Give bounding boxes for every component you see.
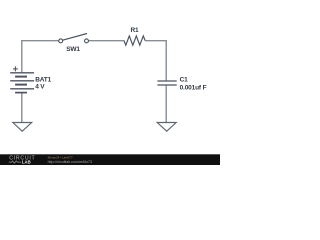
ground left (13, 123, 32, 132)
capacitor C1 (157, 81, 176, 85)
resistor R1 (124, 36, 145, 45)
switch SW1 left contact circle (59, 39, 63, 43)
watermark bottom bar (0, 154, 220, 165)
wire right vertical (corner down to capacitor) (165, 40, 167, 81)
wire battery bottom to left ground (21, 93, 23, 123)
battery BAT1 (10, 66, 34, 92)
svg-text:http://circuitlab.com/ce46z73: http://circuitlab.com/ce46z73 (48, 160, 92, 164)
switch SW1 (59, 34, 89, 43)
svg-text:LAB: LAB (22, 160, 31, 165)
switch SW1 right contact circle (85, 39, 89, 43)
wire capacitor to right ground (165, 85, 167, 122)
svg-text:4 V: 4 V (35, 84, 45, 91)
battery long plate 1 (10, 72, 34, 74)
svg-text:R1: R1 (131, 27, 140, 34)
battery long plate 2 (10, 80, 34, 82)
svg-text:0.001uf F: 0.001uf F (180, 84, 207, 91)
battery long plate 3 (10, 88, 34, 90)
wire left vertical (top wire down to battery +) (21, 40, 23, 72)
wire top-left horizontal (battery to switch) (21, 40, 59, 42)
capacitor C1 top plate (157, 80, 176, 82)
wire resistor to right corner (145, 40, 167, 42)
ground right (157, 123, 176, 132)
wire switch to resistor (88, 40, 124, 42)
battery short plate 2 (15, 84, 27, 86)
battery short plate 1 (15, 76, 27, 78)
switch SW1 lever (63, 34, 87, 41)
svg-text:BAT1: BAT1 (35, 76, 51, 83)
capacitor C1 bottom plate (157, 84, 176, 86)
battery plus sign (13, 68, 18, 70)
watermark logo zigzag (9, 161, 21, 163)
svg-text:C1: C1 (180, 77, 189, 84)
svg-text:SW1: SW1 (66, 46, 80, 53)
battery short plate 3 (15, 92, 27, 94)
